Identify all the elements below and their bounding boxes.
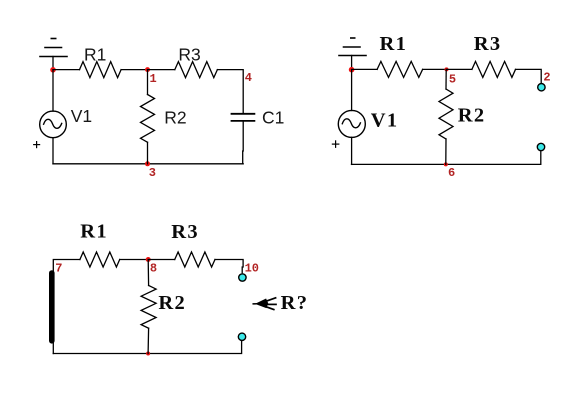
svg-text:R?: R? — [281, 292, 309, 314]
svg-text:R3: R3 — [171, 221, 199, 243]
wire R2 to node 3 — [147, 142, 149, 164]
wire terminal to bottom rail (circuit 2) — [352, 151, 541, 164]
svg-text:R3: R3 — [178, 44, 200, 64]
resistor R3 (circuit 3) — [175, 252, 215, 267]
wire bar to bottom rail (circuit 3) — [52, 341, 54, 354]
svg-text:R1: R1 — [80, 220, 108, 242]
svg-text:8: 8 — [150, 262, 157, 276]
svg-text:V1: V1 — [371, 110, 399, 132]
svg-text:5: 5 — [449, 72, 456, 86]
wire node 8 to R2 (circuit 3) — [147, 260, 149, 286]
wire top left corner (circuit 3) — [53, 260, 80, 273]
junction dot bottom (circuit 3) — [146, 352, 150, 356]
wire node 5 to R2 (circuit 2) — [445, 69, 447, 89]
source V1 (circuit 2) — [338, 110, 365, 137]
node 8 — [146, 257, 151, 262]
svg-text:1: 1 — [150, 72, 157, 86]
short (thick bar, shorted source, circuit 3) — [49, 273, 55, 341]
resistor R1 (circuit 3) — [80, 252, 120, 267]
svg-text:7: 7 — [55, 262, 62, 276]
arrow (points left at R? terminals) — [253, 298, 276, 310]
svg-text:R1: R1 — [84, 44, 106, 64]
wire ground to R1 (circuit 2) — [352, 68, 378, 70]
resistor R2 (circuit 2) — [439, 89, 453, 139]
resistor R3 (circuit 1) — [175, 62, 218, 78]
node 5 — [445, 67, 449, 71]
wire V1 bottom (circuit 2) — [351, 137, 353, 164]
wire V1 top (circuit 2) — [351, 70, 353, 111]
svg-text:R2: R2 — [164, 107, 186, 127]
polarity + (circuit 2) — [332, 141, 338, 147]
source V1 (circuit 1) — [40, 111, 67, 138]
terminal lower right (open, cyan, circuit 2) — [537, 143, 544, 150]
wire R1 to node 8 — [120, 259, 149, 261]
wire V1 bottom — [52, 138, 54, 164]
svg-text:R2: R2 — [158, 292, 186, 314]
node junction dot (V1/R1/ground, circuit 2) — [349, 67, 355, 73]
resistor R3 (circuit 2) — [472, 61, 516, 77]
wire terminal to bottom rail (circuit 3) — [53, 341, 241, 353]
svg-text:3: 3 — [149, 166, 156, 180]
svg-text:C1: C1 — [262, 107, 284, 127]
node 6 — [444, 162, 448, 166]
wire bottom rail (circuit 1) — [53, 163, 243, 165]
wire R1 to node 5 — [423, 68, 447, 70]
terminal node 2 (open, cyan) — [538, 84, 545, 91]
terminal node 10 (open, cyan) — [239, 274, 246, 281]
capacitor C1 — [232, 114, 255, 121]
wire R3 to node 4 corner — [217, 70, 243, 114]
wire node 1 to R3 — [148, 69, 175, 71]
svg-text:10: 10 — [245, 261, 259, 275]
wire R3 to terminal 10 — [215, 260, 243, 273]
wire R1 to node 1 — [121, 69, 147, 71]
wire R2 to node 6 (circuit 2) — [445, 139, 447, 164]
terminal lower (open, cyan, circuit 3) — [238, 333, 245, 340]
wire R2 to bottom rail (circuit 3) — [147, 328, 150, 353]
svg-text:R1: R1 — [380, 33, 408, 55]
svg-text:4: 4 — [245, 71, 252, 85]
wire node 5 to R3 (circuit 2) — [447, 68, 472, 70]
svg-text:6: 6 — [448, 166, 455, 180]
svg-text:2: 2 — [543, 71, 550, 85]
resistor R1 (circuit 2) — [377, 61, 423, 77]
wire V1 top (ground node down to source) — [52, 70, 54, 111]
ground GND2 (circuit 2) — [339, 38, 366, 70]
ground GND1 (circuit 1) — [40, 39, 67, 70]
svg-text:V1: V1 — [71, 106, 92, 126]
node 1 — [145, 67, 150, 72]
wire C1 to bottom — [242, 122, 245, 164]
resistor R2 (circuit 3) — [141, 286, 156, 329]
polarity + (circuit 1) — [34, 142, 40, 148]
svg-text:R2: R2 — [458, 104, 486, 126]
node junction dot (V1/R1/ground, circuit 1) — [50, 67, 56, 73]
wire node 1 to R2 — [147, 70, 149, 95]
svg-text:R3: R3 — [474, 33, 502, 55]
resistor R1 (circuit 1) — [80, 62, 122, 78]
resistor R2 (circuit 1) — [141, 95, 155, 143]
wire ground to R1 — [53, 69, 80, 71]
node 3 — [145, 161, 150, 166]
wire R3 to terminal 2 — [516, 69, 542, 83]
wire node 8 to R3 (circuit 3) — [148, 259, 175, 261]
